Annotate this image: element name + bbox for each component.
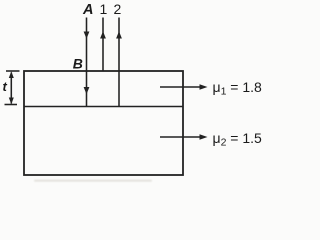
interface line between slab 1 and slab 2: [24, 106, 183, 108]
wire ray 1 vertical: [102, 18, 104, 71]
arrowhead ray A down (inside slab): [84, 87, 90, 94]
arrowhead mu2 right: [200, 134, 208, 140]
t dimension top tick: [6, 70, 20, 72]
svg-text:A: A: [82, 2, 93, 18]
faint scan shadow under bottom edge: [34, 180, 152, 182]
arrowhead ray 1 up: [100, 31, 106, 38]
arrowhead ray A down (upper): [84, 32, 90, 39]
arrowhead t top up: [9, 71, 14, 78]
slab outline rectangle: [24, 71, 183, 175]
svg-text:μ1 = 1.8: μ1 = 1.8: [213, 79, 263, 98]
svg-text:1: 1: [100, 1, 108, 17]
arrowhead mu1 right: [200, 84, 208, 90]
wire ray A vertical: [86, 18, 88, 107]
arrowhead t bottom down: [9, 98, 14, 105]
wire ray 2 vertical: [118, 18, 120, 107]
arrow line to mu1 label: [160, 86, 200, 88]
t dimension line: [10, 73, 12, 104]
svg-text:μ2 = 1.5: μ2 = 1.5: [213, 130, 263, 149]
svg-text:B: B: [73, 55, 83, 71]
svg-text:t: t: [3, 79, 8, 94]
arrow line to mu2 label: [160, 136, 200, 138]
svg-text:2: 2: [114, 1, 122, 17]
arrowhead ray 2 up: [116, 31, 122, 38]
t dimension bottom tick: [5, 104, 18, 106]
